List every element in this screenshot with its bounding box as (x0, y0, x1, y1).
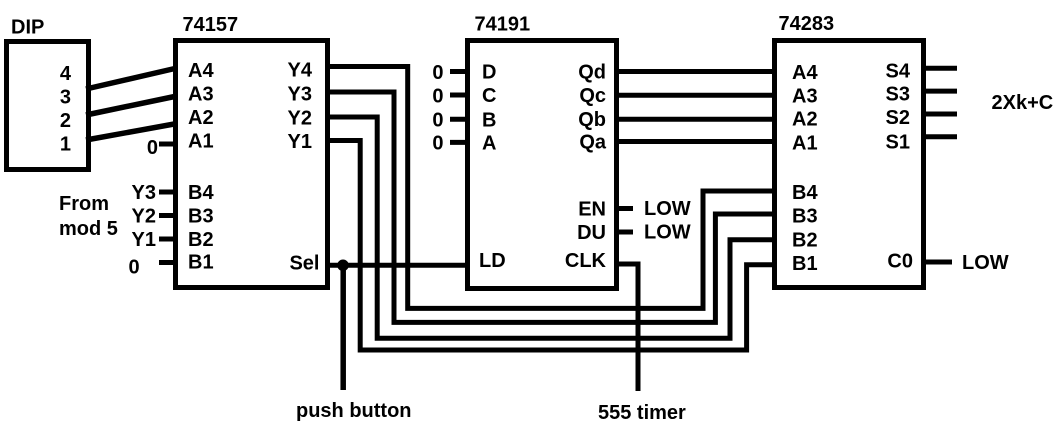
wire DIP to A3 (86, 96, 177, 115)
wire Y2 to B2 (328, 117, 776, 338)
svg-text:Y2: Y2 (132, 206, 156, 228)
svg-text:0: 0 (147, 137, 158, 159)
pin stub C (450, 93, 468, 98)
svg-text:CLK: CLK (565, 250, 607, 272)
svg-text:2: 2 (60, 110, 71, 132)
wire DIP to A4 (86, 68, 177, 89)
svg-text:DIP: DIP (11, 17, 44, 39)
pin stub A1 (159, 142, 176, 147)
svg-text:A3: A3 (188, 84, 214, 106)
svg-text:B: B (482, 109, 496, 131)
svg-text:LOW: LOW (644, 198, 691, 220)
svg-text:B1: B1 (792, 253, 818, 275)
pin stub A (450, 140, 468, 145)
svg-text:Y3: Y3 (132, 182, 156, 204)
svg-text:B4: B4 (188, 182, 214, 204)
wire Qd to A4 (616, 69, 776, 74)
svg-text:2Xk+C: 2Xk+C (992, 92, 1054, 114)
pin stub S2 (922, 112, 957, 117)
svg-text:Y2: Y2 (288, 108, 312, 130)
svg-text:A1: A1 (792, 133, 818, 155)
pin stub DU (616, 230, 633, 235)
svg-text:0: 0 (432, 133, 443, 155)
svg-text:Y1: Y1 (132, 229, 156, 251)
svg-text:0: 0 (432, 110, 443, 132)
wire Qa to A1 (616, 139, 776, 144)
svg-text:A2: A2 (792, 109, 818, 131)
svg-text:Y4: Y4 (288, 60, 313, 82)
svg-text:C0: C0 (887, 251, 913, 273)
svg-text:Y1: Y1 (288, 131, 312, 153)
svg-text:Y3: Y3 (288, 84, 312, 106)
svg-text:B2: B2 (188, 229, 214, 251)
pin stub C0 (922, 260, 952, 265)
pin stub S3 (922, 89, 957, 94)
svg-text:B4: B4 (792, 182, 818, 204)
svg-text:4: 4 (60, 63, 72, 85)
svg-text:555 timer: 555 timer (598, 402, 686, 424)
svg-text:A1: A1 (188, 131, 214, 153)
svg-text:S2: S2 (886, 107, 910, 129)
svg-text:LOW: LOW (644, 222, 691, 244)
pin stub B1 (159, 260, 176, 265)
pin stub B3 (159, 213, 176, 218)
svg-text:Qd: Qd (578, 62, 606, 84)
svg-text:Qc: Qc (579, 85, 606, 107)
svg-text:LOW: LOW (962, 252, 1009, 274)
svg-text:3: 3 (60, 87, 71, 109)
pin stub B4 (159, 190, 176, 195)
pin stub B2 (159, 237, 176, 242)
svg-text:S3: S3 (886, 84, 910, 106)
svg-text:DU: DU (577, 222, 606, 244)
svg-text:Sel: Sel (289, 253, 319, 275)
svg-text:S1: S1 (886, 131, 910, 153)
svg-text:0: 0 (432, 62, 443, 84)
svg-text:A: A (482, 132, 496, 154)
wire Qc to A3 (616, 93, 776, 98)
svg-text:1: 1 (60, 134, 71, 156)
svg-text:B1: B1 (188, 252, 214, 274)
svg-text:mod 5: mod 5 (59, 218, 118, 240)
svg-text:74283: 74283 (779, 13, 835, 35)
IC U1 74157 (176, 41, 328, 288)
pin stub S4 (922, 66, 957, 71)
svg-text:0: 0 (432, 86, 443, 108)
svg-text:74157: 74157 (183, 14, 239, 36)
DIP switch block (7, 42, 89, 170)
svg-text:S4: S4 (886, 60, 911, 82)
pin stub D (450, 69, 468, 74)
svg-text:B3: B3 (188, 206, 214, 228)
svg-text:A4: A4 (188, 60, 214, 82)
svg-text:A3: A3 (792, 85, 818, 107)
svg-text:B3: B3 (792, 206, 818, 228)
svg-text:D: D (482, 62, 496, 84)
pin stub EN (616, 206, 633, 211)
svg-text:Qa: Qa (579, 132, 607, 154)
svg-text:Qb: Qb (578, 109, 606, 131)
svg-text:A4: A4 (792, 62, 818, 84)
svg-text:EN: EN (578, 199, 606, 221)
junction dot (337, 260, 349, 272)
wire Y1 to B1 (328, 141, 776, 351)
wire Qb to A2 (616, 117, 776, 122)
svg-text:C: C (482, 85, 496, 107)
wire Y4 to B4 (328, 67, 776, 309)
wire Sel to LD (328, 263, 470, 268)
svg-text:LD: LD (479, 250, 506, 272)
svg-text:A2: A2 (188, 107, 214, 129)
svg-text:0: 0 (129, 257, 140, 279)
IC U3 74283 (775, 41, 924, 288)
pin stub B (450, 117, 468, 122)
svg-text:74191: 74191 (475, 14, 531, 36)
wire Y3 to B3 (328, 92, 776, 322)
wire DIP to A2 (86, 124, 177, 141)
svg-text:push button: push button (296, 400, 412, 422)
pin stub S1 (922, 134, 957, 139)
wire CLK to 555 timer (616, 264, 638, 391)
IC U2 74191 (468, 41, 617, 289)
svg-text:From: From (59, 193, 109, 215)
wire to push button (340, 265, 346, 390)
svg-text:B2: B2 (792, 229, 818, 251)
